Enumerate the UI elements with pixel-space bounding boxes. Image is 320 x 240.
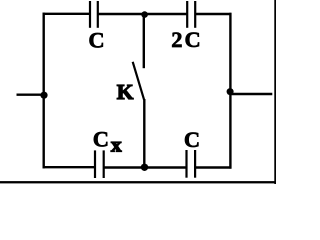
svg-text:C: C bbox=[184, 27, 200, 52]
svg-text:x: x bbox=[111, 132, 122, 156]
svg-text:C: C bbox=[93, 127, 109, 152]
svg-text:C: C bbox=[184, 127, 200, 152]
svg-text:C: C bbox=[88, 27, 104, 52]
svg-text:K: K bbox=[117, 80, 134, 104]
svg-text:2: 2 bbox=[171, 27, 182, 52]
